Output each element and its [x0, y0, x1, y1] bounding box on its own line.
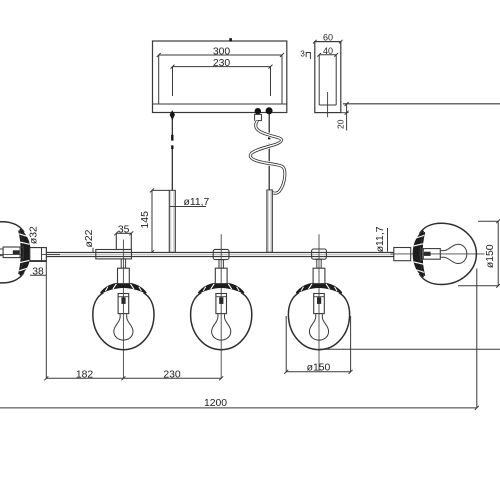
svg-text:3: 3 — [300, 50, 305, 59]
centreline pendant 1 — [122, 240, 124, 379]
dimension 300 — [157, 46, 284, 57]
centreline pendant 2 — [220, 234, 222, 378]
left end globe assembly — [0, 222, 31, 283]
ceiling reference line — [343, 103, 500, 105]
suspension tube left — [169, 190, 175, 252]
dimension 1200 — [0, 269, 479, 410]
svg-text:20: 20 — [335, 119, 345, 129]
pendant 1 cylinder — [118, 268, 130, 283]
pendant 1 globe assembly — [93, 283, 154, 350]
dimension 20 — [335, 102, 348, 131]
right end globe assembly — [413, 223, 477, 284]
pendant 3 globe assembly — [288, 283, 349, 350]
svg-text:145: 145 — [140, 211, 151, 229]
dimension 40 — [317, 46, 338, 57]
pendant 2 globe assembly — [191, 283, 252, 350]
end coupler — [30, 248, 47, 261]
dimension 60 — [313, 33, 343, 44]
centreline left end — [0, 253, 60, 255]
dimension 145 — [140, 188, 169, 254]
svg-text:60: 60 — [323, 33, 333, 43]
sleeve pendant 2 — [213, 249, 229, 259]
svg-text:ø150: ø150 — [485, 244, 496, 268]
dimension 3 — [300, 50, 310, 59]
coiled cord — [250, 121, 285, 194]
end coupler redraw — [30, 248, 60, 261]
canopy front view — [153, 38, 287, 112]
svg-text:230: 230 — [213, 58, 231, 69]
svg-text:ø22: ø22 — [84, 229, 95, 247]
left suspension attachment — [170, 110, 175, 190]
svg-text:ø150: ø150 — [307, 362, 331, 373]
pendant 3 cylinder — [313, 268, 325, 283]
tube 22 — [96, 250, 132, 259]
canopy side view — [315, 42, 341, 118]
svg-text:38: 38 — [32, 266, 44, 277]
bottom reference line from globe 3 — [319, 348, 500, 350]
svg-text:230: 230 — [163, 369, 181, 380]
straight power cable — [268, 114, 270, 191]
centreline pendant 3 — [318, 234, 320, 371]
label diameter 22 — [84, 229, 95, 252]
dimension 38 — [30, 261, 47, 378]
dimension 230 canopy — [171, 58, 273, 96]
joint block 35 — [116, 233, 131, 249]
pendant 2 stem — [219, 260, 223, 269]
power connectors — [255, 107, 273, 120]
svg-text:ø32: ø32 — [29, 226, 40, 244]
svg-text:35: 35 — [118, 224, 130, 235]
svg-text:300: 300 — [213, 46, 231, 57]
svg-text:ø11,7: ø11,7 — [375, 226, 386, 252]
svg-text:182: 182 — [76, 369, 94, 380]
pendant 3 stem — [317, 259, 321, 268]
dimension diameter 150 under pendant 3 — [284, 316, 352, 374]
dimension 35 — [114, 224, 133, 235]
pendant 2 cylinder — [215, 268, 227, 283]
dimension 182 and 230 — [44, 369, 223, 380]
suspension tube right — [267, 190, 272, 252]
sleeve pendant 3 — [312, 249, 327, 259]
main bar rod — [46, 252, 394, 256]
right end cylinder — [394, 248, 411, 261]
label diameter 11.7 right — [375, 226, 388, 252]
pendant 1 stem — [121, 259, 125, 268]
centreline right end — [391, 253, 485, 255]
svg-text:40: 40 — [323, 46, 333, 56]
label diameter 11.7 left — [170, 197, 210, 208]
dimension diameter 150 right globe — [458, 219, 500, 287]
svg-text:1200: 1200 — [204, 398, 227, 409]
